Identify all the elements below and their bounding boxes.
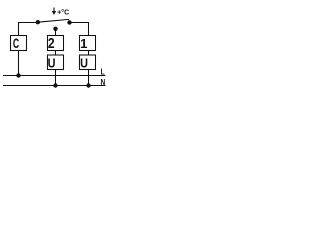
svg-text:C: C <box>13 36 20 52</box>
svg-text:N: N <box>100 77 105 87</box>
terminal box C <box>11 36 27 52</box>
wire C down to L line <box>18 51 20 76</box>
switch pivot node <box>36 20 40 24</box>
svg-text:2: 2 <box>48 35 55 51</box>
wire right U down to N line <box>88 70 90 86</box>
svg-text:1: 1 <box>80 36 87 51</box>
wire terminal 1 to load U <box>88 51 90 56</box>
svg-text:L: L <box>101 67 105 77</box>
temperature label +°C <box>52 8 69 17</box>
L bus line <box>3 75 106 77</box>
N bus line <box>3 85 106 87</box>
svg-text:+°C: +°C <box>57 9 69 17</box>
load box U (left) <box>48 55 64 71</box>
contact node 1 <box>67 20 71 24</box>
wire from contact 2 to terminal 2 <box>55 29 57 36</box>
terminal box 1 <box>80 36 96 51</box>
terminal box 2 <box>48 35 64 51</box>
wire left U down to N line <box>55 70 57 86</box>
svg-text:U: U <box>48 56 56 71</box>
svg-text:U: U <box>80 56 88 71</box>
contact node 2 <box>53 27 57 31</box>
junction on L line <box>16 73 20 77</box>
wire terminal 2 to load U <box>55 51 57 56</box>
junction right on N line <box>86 83 90 87</box>
load box U (right) <box>80 55 96 71</box>
junction left on N line <box>53 83 57 87</box>
wire from C up to switch pivot <box>19 23 37 36</box>
wire from contact 1 to terminal 1 <box>71 23 89 36</box>
thermostat switch blade <box>38 19 69 22</box>
